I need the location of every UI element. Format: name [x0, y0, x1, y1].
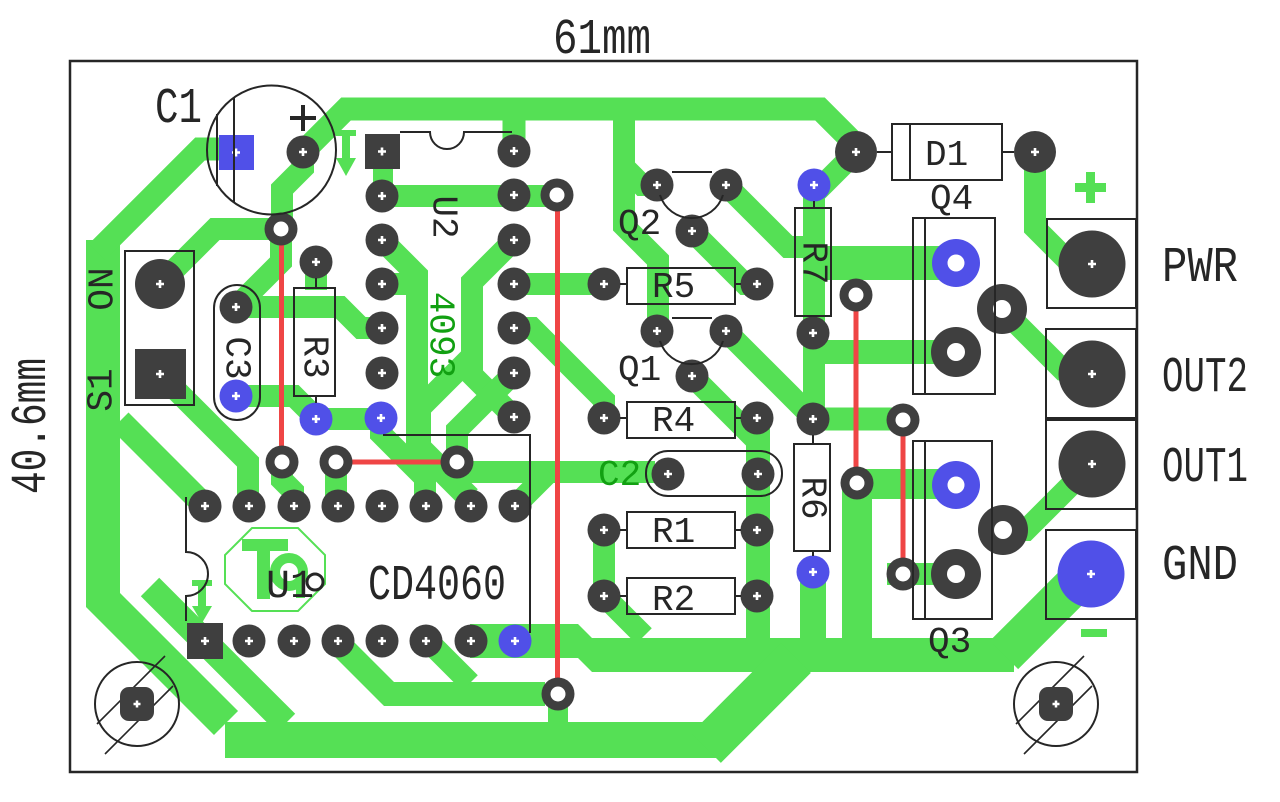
connector OUT2 outline [1046, 329, 1136, 418]
via D [320, 446, 353, 479]
resistor R5 pads [588, 268, 621, 301]
LOGO [225, 528, 325, 611]
resistor R6 outline [794, 444, 830, 551]
transistor Q3 blue pad [932, 461, 980, 509]
resistor R3 outline [294, 288, 335, 396]
svg-text:Q4: Q4 [930, 179, 973, 220]
resistor R7 leads [813, 201, 815, 208]
wire Q2 mid to R5 [692, 231, 757, 284]
svg-text:D1: D1 [925, 135, 968, 176]
minus mark GND [1081, 629, 1107, 637]
wire jumper Q4 via down [901, 420, 906, 574]
IC U1 blue pad [499, 625, 532, 658]
polarity arrow near U2 [336, 130, 356, 136]
GREEN-TRACES [97, 109, 1092, 748]
wire jumper U2 via down to bottom via [555, 195, 560, 695]
svg-text:61mm: 61mm [553, 12, 651, 69]
diode D1 pads [835, 131, 877, 173]
wire U1 bottom stub [428, 641, 470, 683]
wire OUT1 diagonal [1003, 464, 1092, 530]
resistor R2 pads [588, 580, 621, 613]
transistor Q4 outline [913, 218, 995, 394]
resistor R7 bottom pad [797, 317, 830, 350]
wire U2 S-net [472, 240, 514, 417]
svg-text:Q3: Q3 [928, 622, 971, 663]
wire Q1 mid to C2 [692, 376, 758, 474]
transistor Q2 pads [641, 169, 674, 202]
diode D1 leads [877, 151, 1014, 153]
wire trunk top diagonal to C1 minus [97, 149, 222, 252]
wire U2 pin4 stub [382, 273, 417, 295]
RED-WIRES [282, 195, 904, 695]
wire U2 pin5 to R4 [514, 328, 604, 418]
wire band to Q4 middle [812, 340, 956, 364]
wire via to C2 [457, 461, 655, 483]
wire Q1 right to R6 [726, 331, 814, 419]
wire Q2 left to top band [624, 167, 657, 185]
via J [887, 558, 920, 591]
resistor R7 outline [795, 208, 831, 316]
svg-text:OUT1: OUT1 [1162, 440, 1248, 497]
transistor Q4 blue pad [932, 239, 980, 287]
mounting hole bottom right [1014, 656, 1098, 754]
capacitor C2 pads [652, 458, 685, 491]
transistor Q4 right pad [977, 284, 1027, 334]
resistor R4 outline [627, 402, 735, 438]
board outline [70, 61, 1137, 772]
resistor R3 leads [315, 278, 317, 403]
capacitor C1 negative square pad [219, 135, 254, 170]
connector PWR pad [1059, 231, 1126, 298]
logo octagon [225, 528, 325, 611]
wire top supply band C1 to D1 [303, 109, 863, 152]
resistor R2 outline [627, 578, 735, 614]
wire D1 to R7 vertical [814, 152, 856, 419]
connector GND outline [1046, 530, 1136, 619]
transistor Q3 flat line [924, 441, 926, 619]
wire Q3 low stub [887, 563, 956, 585]
wire jumper R7 via down [854, 295, 859, 483]
diode D1 outline [892, 124, 1002, 180]
resistor R1 pads [588, 514, 621, 547]
op-amp U2 outline with notch [400, 132, 512, 149]
capacitor C1 plus mark [290, 105, 316, 131]
wire bottom band up diagonal [706, 658, 796, 748]
wire U2 pin1 stub [373, 151, 393, 196]
resistor R6 bottom blue pad [797, 556, 830, 589]
svg-text:U1: U1 [266, 565, 314, 610]
svg-text:Q2: Q2 [618, 204, 661, 245]
wire R6 top to via [813, 408, 903, 431]
resistor R6 leads [812, 435, 814, 556]
capacitor C1 outline [207, 86, 336, 215]
via F [542, 678, 575, 711]
SILKSCREEN [70, 61, 1137, 772]
wire via to U1 pin3 [325, 462, 347, 506]
svg-text:GND: GND [1162, 538, 1238, 595]
svg-text:R4: R4 [652, 401, 695, 442]
wire C3 bottom to R3 bottom [236, 396, 316, 418]
wire via to C3 top [236, 229, 281, 307]
plus mark PWR [1075, 172, 1106, 203]
wire left trunk [103, 240, 226, 723]
wire U1 bottom to via 695 [336, 641, 545, 694]
svg-text:R2: R2 [652, 580, 695, 621]
wire blue pad row [316, 408, 381, 430]
resistor R4 pads [588, 402, 621, 435]
wire Q2 right diagonal [726, 185, 812, 247]
resistor R7 top blue pad [798, 169, 831, 202]
GREEN-MARKS [192, 130, 1107, 637]
via H [841, 467, 874, 500]
IC U1 top row pads [189, 490, 222, 523]
op-amp U2 pin1 square pad [365, 134, 400, 169]
logo q [275, 558, 303, 586]
capacitor C1 positive pad [287, 136, 320, 169]
wire R3 top stub [305, 262, 327, 290]
wire Q1 left vertical [624, 111, 658, 331]
capacitor C3 outline [214, 285, 260, 420]
wire trunk to U1 pin1 [120, 421, 205, 506]
resistor R2 leads [620, 595, 741, 597]
wire U2 pin14 feed [503, 109, 526, 151]
svg-text:U2: U2 [423, 195, 464, 238]
resistor R4 leads [620, 417, 741, 419]
svg-text:PWR: PWR [1162, 240, 1238, 297]
via G [840, 279, 873, 312]
wire band to Q4 blue [812, 246, 956, 280]
svg-text:C3: C3 [216, 336, 257, 379]
transistor Q2 outline [660, 172, 723, 218]
wire U2 pin3 diagonal to U1 [382, 240, 470, 506]
diode D1 cathode line [909, 124, 911, 180]
wire R6 bottom drop [800, 572, 826, 640]
transistor Q3 outline [913, 441, 992, 619]
transistor Q4 flat line [924, 218, 926, 394]
op-amp U2 left column pads [366, 180, 399, 213]
svg-text:R5: R5 [652, 267, 695, 308]
svg-text:R1: R1 [652, 512, 695, 553]
svg-text:4093: 4093 [420, 292, 461, 378]
op-amp U2 pin7 blue pad [365, 402, 398, 435]
resistor R3 top pad [300, 246, 333, 279]
polarity arrow near U1 [192, 580, 212, 586]
wire U2 pin4 to R5 [514, 273, 604, 295]
wire C1 plus to via [282, 152, 303, 229]
wire R4 C2 R1 R2 right chain [746, 418, 770, 640]
svg-text:OUT2: OUT2 [1162, 350, 1248, 407]
via C [266, 446, 299, 479]
transistor Q4 middle pad [931, 327, 981, 377]
svg-text:ON: ON [83, 267, 124, 310]
svg-text:Q1: Q1 [618, 350, 661, 391]
resistor R3 bottom blue pad [300, 403, 333, 436]
capacitor C3 top pad [220, 291, 253, 324]
mounting hole bottom left [95, 656, 179, 754]
connector PWR outline [1047, 219, 1136, 308]
svg-text:CD4060: CD4060 [368, 558, 506, 615]
switch S1 outline [125, 251, 194, 405]
wire via483 drop [842, 490, 872, 640]
logo T [242, 539, 288, 551]
resistor R1 outline [627, 512, 735, 548]
wire U2 row2 horizontal to via [382, 185, 557, 207]
svg-text:R3: R3 [294, 335, 335, 378]
wire silk U1 link [383, 435, 530, 633]
wire bottom band [225, 722, 718, 758]
connector GND blue pad [1058, 541, 1125, 608]
IC U1 outline with notch [186, 497, 208, 621]
svg-text:C1: C1 [155, 81, 202, 138]
op-amp U2 right column pads [498, 135, 531, 168]
wire via stub to bottom band [548, 695, 568, 726]
wire C3 to U2 pin5 [236, 307, 382, 328]
wire jumper C1 via to mid via [279, 229, 284, 462]
wire R1 R2 left chain [604, 530, 644, 636]
svg-text:R7: R7 [793, 241, 834, 284]
via B [265, 213, 298, 246]
via E [441, 446, 474, 479]
wire mid split to U1 pad [420, 356, 472, 497]
wire D1 right to PWR [1035, 152, 1092, 264]
transistor Q1 outline [660, 318, 723, 364]
connector OUT1 outline [1046, 420, 1136, 509]
capacitor C1 stripe lines [217, 97, 234, 203]
wire U2 pin7 to U1 [381, 418, 425, 506]
svg-text:R6: R6 [792, 476, 833, 519]
wire via483 to Q3 blue [857, 469, 956, 499]
resistor R6 top pad [797, 403, 830, 436]
svg-text:C2: C2 [598, 455, 641, 496]
wire U1 square diagonal [150, 587, 286, 723]
capacitor C2 outline [646, 451, 782, 496]
via A [541, 179, 574, 212]
wire jumper mid horizontal [336, 460, 457, 465]
connector OUT2 pad [1059, 341, 1126, 408]
wire band to GND diagonal [1004, 574, 1085, 655]
IC U1 bottom row pads [233, 625, 266, 658]
wire U2 pin6 to via [457, 373, 514, 462]
wire Q4 right to OUT2 [1002, 309, 1092, 375]
wire via to U1 pin2 [282, 462, 293, 506]
capacitor C3 bottom blue pad [220, 380, 253, 413]
PADS [95, 131, 1126, 754]
wire U1 pin to C2 net [515, 472, 549, 506]
wire big mid band [470, 624, 1014, 672]
switch S1 square pad [135, 349, 186, 399]
resistor R5 outline [627, 268, 735, 304]
connector OUT1 pad [1059, 431, 1126, 498]
switch S1 round pad [135, 259, 185, 309]
transistor Q3 lower pad [931, 549, 981, 599]
svg-text:40.6mm: 40.6mm [4, 358, 61, 494]
transistor Q3 middle pad [978, 505, 1028, 555]
IC U1 pin1 square pad [187, 623, 223, 659]
resistor R1 leads [620, 529, 741, 531]
resistor R5 leads [620, 283, 741, 285]
wire S1 square to U1 [160, 374, 248, 506]
logo small ring [307, 574, 323, 590]
wire via to S1 [160, 229, 281, 284]
svg-text:S1: S1 [82, 368, 123, 411]
via I [887, 404, 920, 437]
transistor Q1 pads [641, 315, 674, 348]
